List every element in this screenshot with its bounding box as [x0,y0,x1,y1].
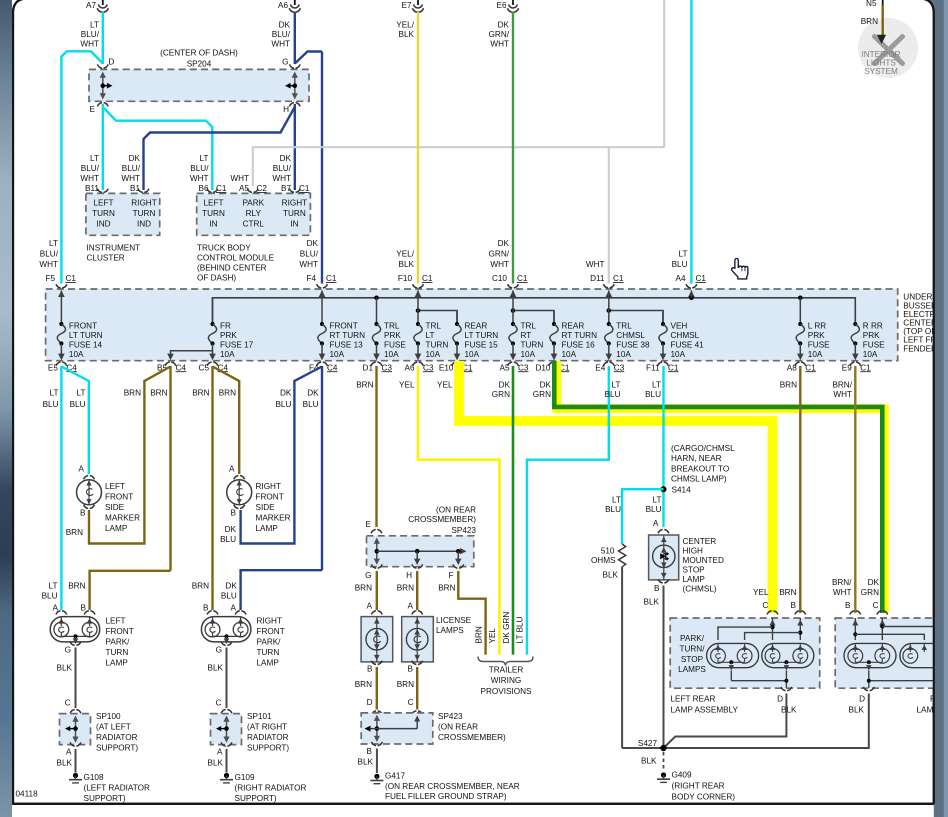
svg-text:A5: A5 [499,363,509,372]
svg-text:YEL: YEL [753,588,769,597]
svg-text:FUSE: FUSE [384,341,406,350]
wire LT BLU/WHT branch from D to fuse box F5 [61,51,102,283]
fuse box exit connector B5 C4 [165,362,176,366]
svg-text:YEL: YEL [488,628,497,644]
wire DK BLU jog to right front park/turn A [241,570,322,610]
svg-text:C2: C2 [257,184,268,193]
fuse box exit connector A5 C3 [508,362,519,366]
svg-text:BLK: BLK [358,757,374,766]
connector stub N5 [882,0,884,5]
fuse box exit connector A6 C3 [413,362,424,366]
svg-text:DK GRN: DK GRN [502,612,511,644]
sub-bus chmsl [609,311,663,325]
svg-text:DK: DK [307,239,319,248]
svg-text:HIGH: HIGH [683,547,704,556]
right rear lamp assembly box [850,611,861,615]
right rear lamp internal wiring [852,620,858,626]
svg-text:WHT: WHT [833,390,852,399]
svg-text:BLU/: BLU/ [300,249,319,258]
svg-text:RADIATOR: RADIATOR [96,733,138,742]
svg-text:BLK: BLK [603,571,619,580]
svg-text:LT: LT [49,582,58,591]
svg-text:BLU/: BLU/ [190,164,209,173]
svg-text:S427: S427 [638,739,658,748]
svg-text:BLU/: BLU/ [272,30,291,39]
svg-text:FUSE 13: FUSE 13 [330,341,364,350]
svg-text:BRN: BRN [475,626,484,643]
svg-text:10A: 10A [220,350,235,359]
svg-text:10A: 10A [69,350,84,359]
svg-text:BRN/: BRN/ [832,381,852,390]
svg-text:BLK: BLK [208,759,224,768]
svg-text:SP100: SP100 [96,712,121,721]
svg-text:SUPPORT): SUPPORT) [84,794,126,803]
wire BRN from SP423 G to license lamp 1 [376,571,378,610]
svg-text:YEL/: YEL/ [396,21,414,30]
fuse VEH CHMSL FUSE 41 10A [662,311,664,325]
svg-text:DK: DK [280,154,292,163]
wire LT BLU from E5 to left front park/turn A [60,366,62,610]
svg-text:TURN: TURN [283,209,306,218]
svg-text:LAMP: LAMP [106,659,129,668]
svg-text:BLU/: BLU/ [81,164,100,173]
svg-text:BLK: BLK [57,664,73,673]
wire BRN from B5 down [169,366,171,571]
svg-text:G108: G108 [84,773,104,782]
svg-text:G: G [282,58,288,67]
license lamp 1 [371,611,382,615]
svg-text:BLK: BLK [849,706,865,715]
svg-text:C1: C1 [860,363,871,372]
svg-text:BRN: BRN [192,389,209,398]
svg-text:C: C [873,601,879,610]
fuse box entry connector at x=608.8 [603,284,614,288]
SP204 pin E connector [97,103,108,107]
wire BRN from N5 to interior lights system [882,5,884,36]
left rear lamp ground link to D [731,680,786,682]
svg-text:FUSE 16: FUSE 16 [562,341,596,350]
wire LT BLU/WHT from A7 to splice SP204 pin D [102,12,104,64]
svg-text:C1: C1 [66,274,77,283]
svg-text:CLUSTER: CLUSTER [87,254,125,263]
svg-text:G: G [216,646,222,655]
svg-text:N5: N5 [866,0,877,8]
wire BLK from right park/turn G to SP101 [226,648,228,709]
svg-text:INSTRUMENT: INSTRUMENT [87,244,141,253]
svg-text:(CARGO/CHMSL: (CARGO/CHMSL [671,444,735,453]
wire BRN branch from B5 to left front side marker B [89,367,171,544]
svg-text:LEFT: LEFT [105,482,125,491]
svg-text:C4: C4 [176,363,187,372]
right rear stadium lamp 2 (clipped) [900,643,948,667]
svg-text:TRL: TRL [384,321,400,330]
svg-text:CONTROL MODULE: CONTROL MODULE [197,254,275,263]
svg-text:DK: DK [868,578,880,587]
interior lights system link [858,18,918,78]
svg-text:FUSE 15: FUSE 15 [465,341,499,350]
fuse L RR PRK FUSE 10A [799,298,801,324]
fuse TRL RT TURN 10A [512,290,514,324]
svg-text:IND: IND [96,220,110,229]
right rear ground link [869,680,934,682]
svg-text:10A: 10A [330,350,345,359]
svg-text:A: A [367,602,373,611]
left front side marker lamp [84,476,95,480]
svg-text:RIGHT: RIGHT [282,199,307,208]
svg-text:A4: A4 [675,274,685,283]
svg-text:YEL/: YEL/ [396,249,414,258]
svg-text:DK: DK [225,582,237,591]
splice pack SP204 box [89,69,309,101]
svg-text:WHT: WHT [586,260,605,269]
wire BLK dashed from S427 to ground G409 [663,752,665,771]
svg-text:REAR: REAR [465,321,488,330]
wire BRN from SP423 H to license lamp 2 [416,571,418,610]
TBC pin B7 [289,189,300,193]
svg-text:DK: DK [280,389,292,398]
svg-text:LEFT: LEFT [93,199,113,208]
svg-text:MOUNTED: MOUNTED [683,556,724,565]
instrument cluster pin B11 [97,189,108,193]
svg-text:B: B [367,665,373,674]
svg-text:LEFT: LEFT [203,199,223,208]
svg-text:OF DASH): OF DASH) [197,274,236,283]
CHMSL pin B [658,579,669,583]
fuse box exit connector F11 C1 [658,362,669,366]
svg-text:B11: B11 [85,184,99,193]
svg-text:PROVISIONS: PROVISIONS [481,687,532,696]
svg-text:LT: LT [77,389,86,398]
svg-text:OHMS: OHMS [591,556,616,565]
svg-text:A6: A6 [404,363,414,372]
ground G409 [661,772,666,777]
svg-text:A: A [79,465,85,474]
sub-bus turn left [418,311,457,325]
svg-text:PARK/: PARK/ [680,634,705,643]
svg-text:(CENTER OF DASH): (CENTER OF DASH) [160,49,238,58]
svg-text:A: A [231,604,237,613]
svg-text:BRN: BRN [355,680,372,689]
svg-text:MARKER: MARKER [256,514,291,523]
wire LT BLU branch from E5 to left front side marker A [61,367,88,475]
fuse box exit connector D1 C3 [371,362,382,366]
svg-text:WHT: WHT [80,174,99,183]
splice S414 [661,486,667,492]
SP423 exit F [453,564,464,568]
svg-text:BLU/: BLU/ [40,249,59,258]
fuse FRONT RT TURN FUSE 13 10A [321,290,323,324]
svg-text:B: B [80,509,86,518]
svg-text:TRAILER: TRAILER [489,666,524,675]
svg-text:10A: 10A [384,350,399,359]
TBC pin B6 [207,189,218,193]
svg-text:E4: E4 [595,363,605,372]
svg-text:BLU: BLU [646,505,662,514]
svg-text:BRN: BRN [356,381,373,390]
svg-text:(RIGHT REAR: (RIGHT REAR [672,782,725,791]
wire YEL from A6 to trailer provisions [418,366,499,655]
svg-text:WHT: WHT [272,174,291,183]
fuse box exit connector D10 C1 [549,362,560,366]
svg-text:(BEHIND CENTER: (BEHIND CENTER [197,264,267,273]
fuse TRL CHMSL FUSE 38 10A [608,290,610,324]
underhood bussed electrical center box [46,289,898,361]
svg-text:B1: B1 [130,184,140,193]
svg-text:BLK: BLK [57,759,73,768]
left rear stadium lamp 2 [762,643,814,667]
SP204 internal bus left [102,77,104,95]
fuse 17 split to B5 [171,351,213,354]
svg-text:BLK: BLK [208,664,224,673]
svg-text:CHMSL LAMP): CHMSL LAMP) [671,475,727,484]
splice SP101 box [221,710,232,714]
svg-text:510: 510 [601,547,615,556]
svg-text:C1: C1 [422,274,433,283]
svg-text:DK: DK [498,239,510,248]
wire BRN from SP423 F to trailer provisions [458,571,485,655]
svg-text:WHT: WHT [190,174,209,183]
license lamp 2 [412,611,423,615]
svg-text:BLK: BLK [781,706,797,715]
svg-text:TRL: TRL [521,321,537,330]
svg-text:TURN: TURN [257,648,280,657]
svg-text:F11: F11 [646,363,660,372]
svg-text:A7: A7 [86,1,96,10]
svg-text:FRONT: FRONT [330,321,358,330]
svg-text:TURN: TURN [133,209,156,218]
svg-text:04118: 04118 [16,790,39,799]
fuse REAR LT TURN FUSE 15 10A [456,311,458,325]
svg-text:F10: F10 [398,274,413,283]
svg-text:A: A [408,602,414,611]
svg-text:TURN: TURN [92,209,115,218]
svg-text:CROSSMEMBER): CROSSMEMBER) [408,515,476,524]
wire BLK from resistor to splice S427 [621,567,623,748]
svg-text:(ON REAR: (ON REAR [436,506,476,515]
fuse FR PRK FUSE 17 10A [212,298,214,324]
svg-text:GRN/: GRN/ [489,30,510,39]
svg-text:C1: C1 [216,184,227,193]
fuse R RR PRK FUSE 10A [854,323,856,325]
svg-text:G: G [65,646,71,655]
svg-text:FENDER: FENDER [903,344,937,353]
svg-text:10A: 10A [521,350,536,359]
svg-text:STOP: STOP [681,655,704,664]
svg-text:BLU: BLU [70,400,86,409]
svg-text:IN: IN [290,220,298,229]
svg-text:BRN: BRN [150,389,167,398]
left rear lamp exit D [781,687,792,691]
svg-text:SIDE: SIDE [256,503,276,512]
svg-text:BRN: BRN [438,583,455,592]
SP204 pin H connector [289,103,300,107]
svg-text:DK: DK [129,154,141,163]
svg-text:RIGHT: RIGHT [256,482,281,491]
svg-text:RIGHT: RIGHT [257,617,282,626]
wire BLK from SP101 A to ground G109 [226,749,228,773]
svg-text:LAMP: LAMP [105,524,128,533]
wire DK GRN/WHT from E6 to fuse box C10 [512,12,514,284]
svg-text:BRN: BRN [124,389,141,398]
svg-text:BLU: BLU [672,260,688,269]
svg-text:G: G [365,571,371,580]
svg-text:WHT: WHT [230,174,249,183]
svg-text:CHMSL: CHMSL [616,331,645,340]
svg-text:RLY: RLY [246,209,262,218]
svg-text:FRONT: FRONT [106,627,134,636]
svg-text:WHT: WHT [121,174,140,183]
svg-text:PARK/: PARK/ [106,638,131,647]
svg-text:TRL: TRL [616,321,632,330]
wire LT BLU/WHT from E to TBC B6 [103,107,213,190]
left front park/turn lamp [56,611,67,615]
svg-text:PRK: PRK [384,331,401,340]
svg-text:MARKER: MARKER [105,514,140,523]
wire BLK from CHMSL B to splice S427 [663,586,665,749]
wire DK BLU/WHT from H to instrument cluster B1 [144,107,295,190]
svg-text:LT: LT [49,239,58,248]
wire DK BLU/WHT branch from G to fuse box F4 [295,52,322,64]
svg-text:B: B [845,601,851,610]
svg-text:BLK: BLK [641,757,657,766]
svg-text:SP204: SP204 [187,60,212,69]
svg-text:R RR: R RR [863,321,883,330]
svg-text:E9: E9 [842,363,852,372]
SP204 pin G connector [289,64,300,68]
right front side marker lamp [234,476,245,480]
svg-text:BREAKOUT TO: BREAKOUT TO [671,464,729,473]
wire BRN from A8 to left rear lamp B [799,366,801,613]
fuse box entry connector at x=513 [508,284,519,288]
svg-text:WHT: WHT [80,39,99,48]
svg-text:E: E [90,105,96,114]
svg-text:B: B [654,584,660,593]
svg-text:IND: IND [137,220,151,229]
svg-text:BLU: BLU [303,400,319,409]
svg-text:LT BLU: LT BLU [516,616,525,643]
wire WHT from TBC A5 up and right [253,147,664,186]
fuse box entry connector at x=691.4 [686,284,697,288]
svg-text:LEFT REAR: LEFT REAR [671,695,716,704]
svg-text:B: B [81,604,87,613]
svg-text:BLK: BLK [399,260,415,269]
svg-text:LT TURN: LT TURN [465,331,499,340]
svg-text:C1: C1 [326,274,337,283]
svg-text:CTRL: CTRL [243,220,265,229]
svg-text:L RR: L RR [808,321,826,330]
svg-text:RT TURN: RT TURN [330,331,366,340]
svg-text:PARK/: PARK/ [257,638,282,647]
svg-text:IN: IN [209,220,217,229]
svg-text:G109: G109 [235,773,255,782]
svg-text:(ON REAR: (ON REAR [438,722,478,731]
wire DK BLU/WHT from H to TBC B7 [294,104,296,190]
svg-text:BRN: BRN [779,588,796,597]
svg-text:10A: 10A [465,350,480,359]
svg-text:F4: F4 [306,274,316,283]
svg-text:TURN: TURN [106,648,129,657]
svg-text:H: H [406,571,412,580]
highlight halo for DK GRN wire from D10 to right rear lamp C [557,361,885,613]
svg-text:F5: F5 [45,274,55,283]
svg-text:E6: E6 [496,1,506,10]
fuse box entry connector at x=418 [413,284,424,288]
svg-text:E: E [366,520,372,529]
svg-text:C3: C3 [518,363,529,372]
SP204 pin D connector [97,64,108,68]
svg-text:SUPPORT): SUPPORT) [247,744,289,753]
splice SP423 connector E [371,530,382,534]
svg-text:10A: 10A [808,350,823,359]
svg-text:(CHMSL): (CHMSL) [683,585,717,594]
arrow to interior lights system [877,35,886,44]
svg-text:LT TURN: LT TURN [69,331,103,340]
svg-text:BLU/: BLU/ [273,164,292,173]
svg-text:G417: G417 [385,772,405,781]
svg-text:C3: C3 [382,363,393,372]
svg-text:E5: E5 [48,363,58,372]
svg-text:C1: C1 [696,274,707,283]
SP423 lower exit B [372,742,383,746]
svg-text:SP423: SP423 [438,712,463,721]
wire DK GRN core from D10 to right rear lamp C (rear right turn) [554,361,882,613]
svg-text:YEL: YEL [399,381,415,390]
svg-text:RADIATOR: RADIATOR [247,733,289,742]
svg-text:C4: C4 [327,363,338,372]
svg-text:B: B [367,747,373,756]
svg-text:10A: 10A [671,350,686,359]
svg-text:FUSE 38: FUSE 38 [616,341,650,350]
svg-text:BRN: BRN [861,17,878,26]
svg-text:FUSE 17: FUSE 17 [220,341,254,350]
fuse FRONT LT TURN FUSE 14 10A [60,290,62,324]
svg-text:BODY CORNER): BODY CORNER) [672,793,736,802]
svg-text:C1: C1 [613,274,624,283]
svg-text:PRK: PRK [808,331,825,340]
svg-text:LT: LT [679,249,688,258]
svg-text:GRN: GRN [533,390,551,399]
svg-text:CHMSL: CHMSL [671,331,700,340]
svg-text:TURN: TURN [202,209,225,218]
svg-text:DK: DK [498,21,510,30]
svg-text:BLU/: BLU/ [81,30,100,39]
svg-text:C: C [762,601,768,610]
svg-text:GRN/: GRN/ [489,249,510,258]
right rear stadium lamp 1 [844,643,896,667]
svg-text:WHT: WHT [271,39,290,48]
svg-text:BLU: BLU [220,535,236,544]
svg-text:RT: RT [521,331,532,340]
trailer provisions brace [478,657,533,666]
svg-text:10A: 10A [562,350,577,359]
svg-text:C: C [65,699,71,708]
svg-text:S414: S414 [672,486,692,495]
svg-text:C1: C1 [517,274,528,283]
svg-text:FUSE: FUSE [863,341,885,350]
svg-text:FUSE: FUSE [808,341,830,350]
svg-text:BRN: BRN [219,389,236,398]
wire BLK from SP423 B to ground G417 [376,749,378,774]
splice S427 [660,745,666,751]
svg-text:DK: DK [540,381,552,390]
SP101 exit A [221,742,232,746]
svg-text:C1: C1 [299,184,310,193]
center high mounted stop lamp (CHMSL) [658,530,669,534]
left rear lamp internal wiring [770,620,776,626]
wire BLK from SP100 A to ground G108 [75,749,77,773]
connector stub A7 [86,0,108,12]
svg-text:YEL: YEL [437,381,453,390]
